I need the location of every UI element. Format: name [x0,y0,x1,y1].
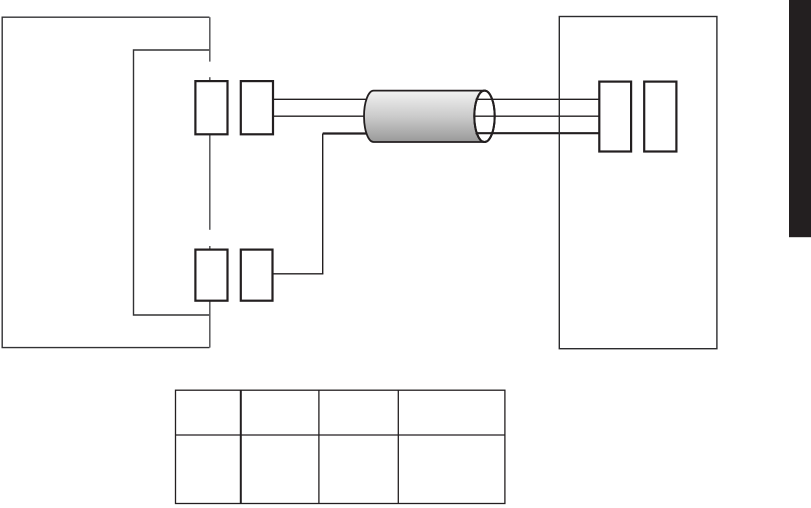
right device box [559,17,717,349]
wire (shield elbow lower horizontal) [273,273,324,275]
connector block F (right pair, right) [644,82,676,152]
wire (thick shield, right side) [476,132,600,134]
connector block E (right pair, left) [599,82,631,152]
connector block A (upper-left pair, left) [195,81,227,134]
connector block D (lower-left pair, right) [241,250,273,301]
wire (thin, middle) [273,115,390,117]
table row divider [176,434,505,436]
table outer frame [176,390,505,503]
left device inner bracket [134,50,210,315]
black sidebar tab [789,0,811,237]
connector block B (upper-left pair, right) [241,81,273,134]
wire (shield elbow vertical) [322,134,324,274]
cylinder end cap ellipse [474,91,494,142]
table column divider 3 [397,390,399,503]
cylinder ferrite body [364,91,495,142]
wire (thin upper, right side) [476,98,600,100]
wire (thin, upper) [273,98,390,100]
wire (thin middle, right side) [474,115,599,117]
wire (thick, shield into cylinder) [323,132,390,134]
table column divider 2 [318,390,320,503]
cylinder end cap outline (over wires) [474,91,494,142]
segmented vertical line (right edge of outer box, behind connectors) [209,17,211,347]
left device outer box [2,17,209,347]
connector block C (lower-left pair, left) [195,250,227,301]
table column divider 1 (heavy) [240,390,242,503]
